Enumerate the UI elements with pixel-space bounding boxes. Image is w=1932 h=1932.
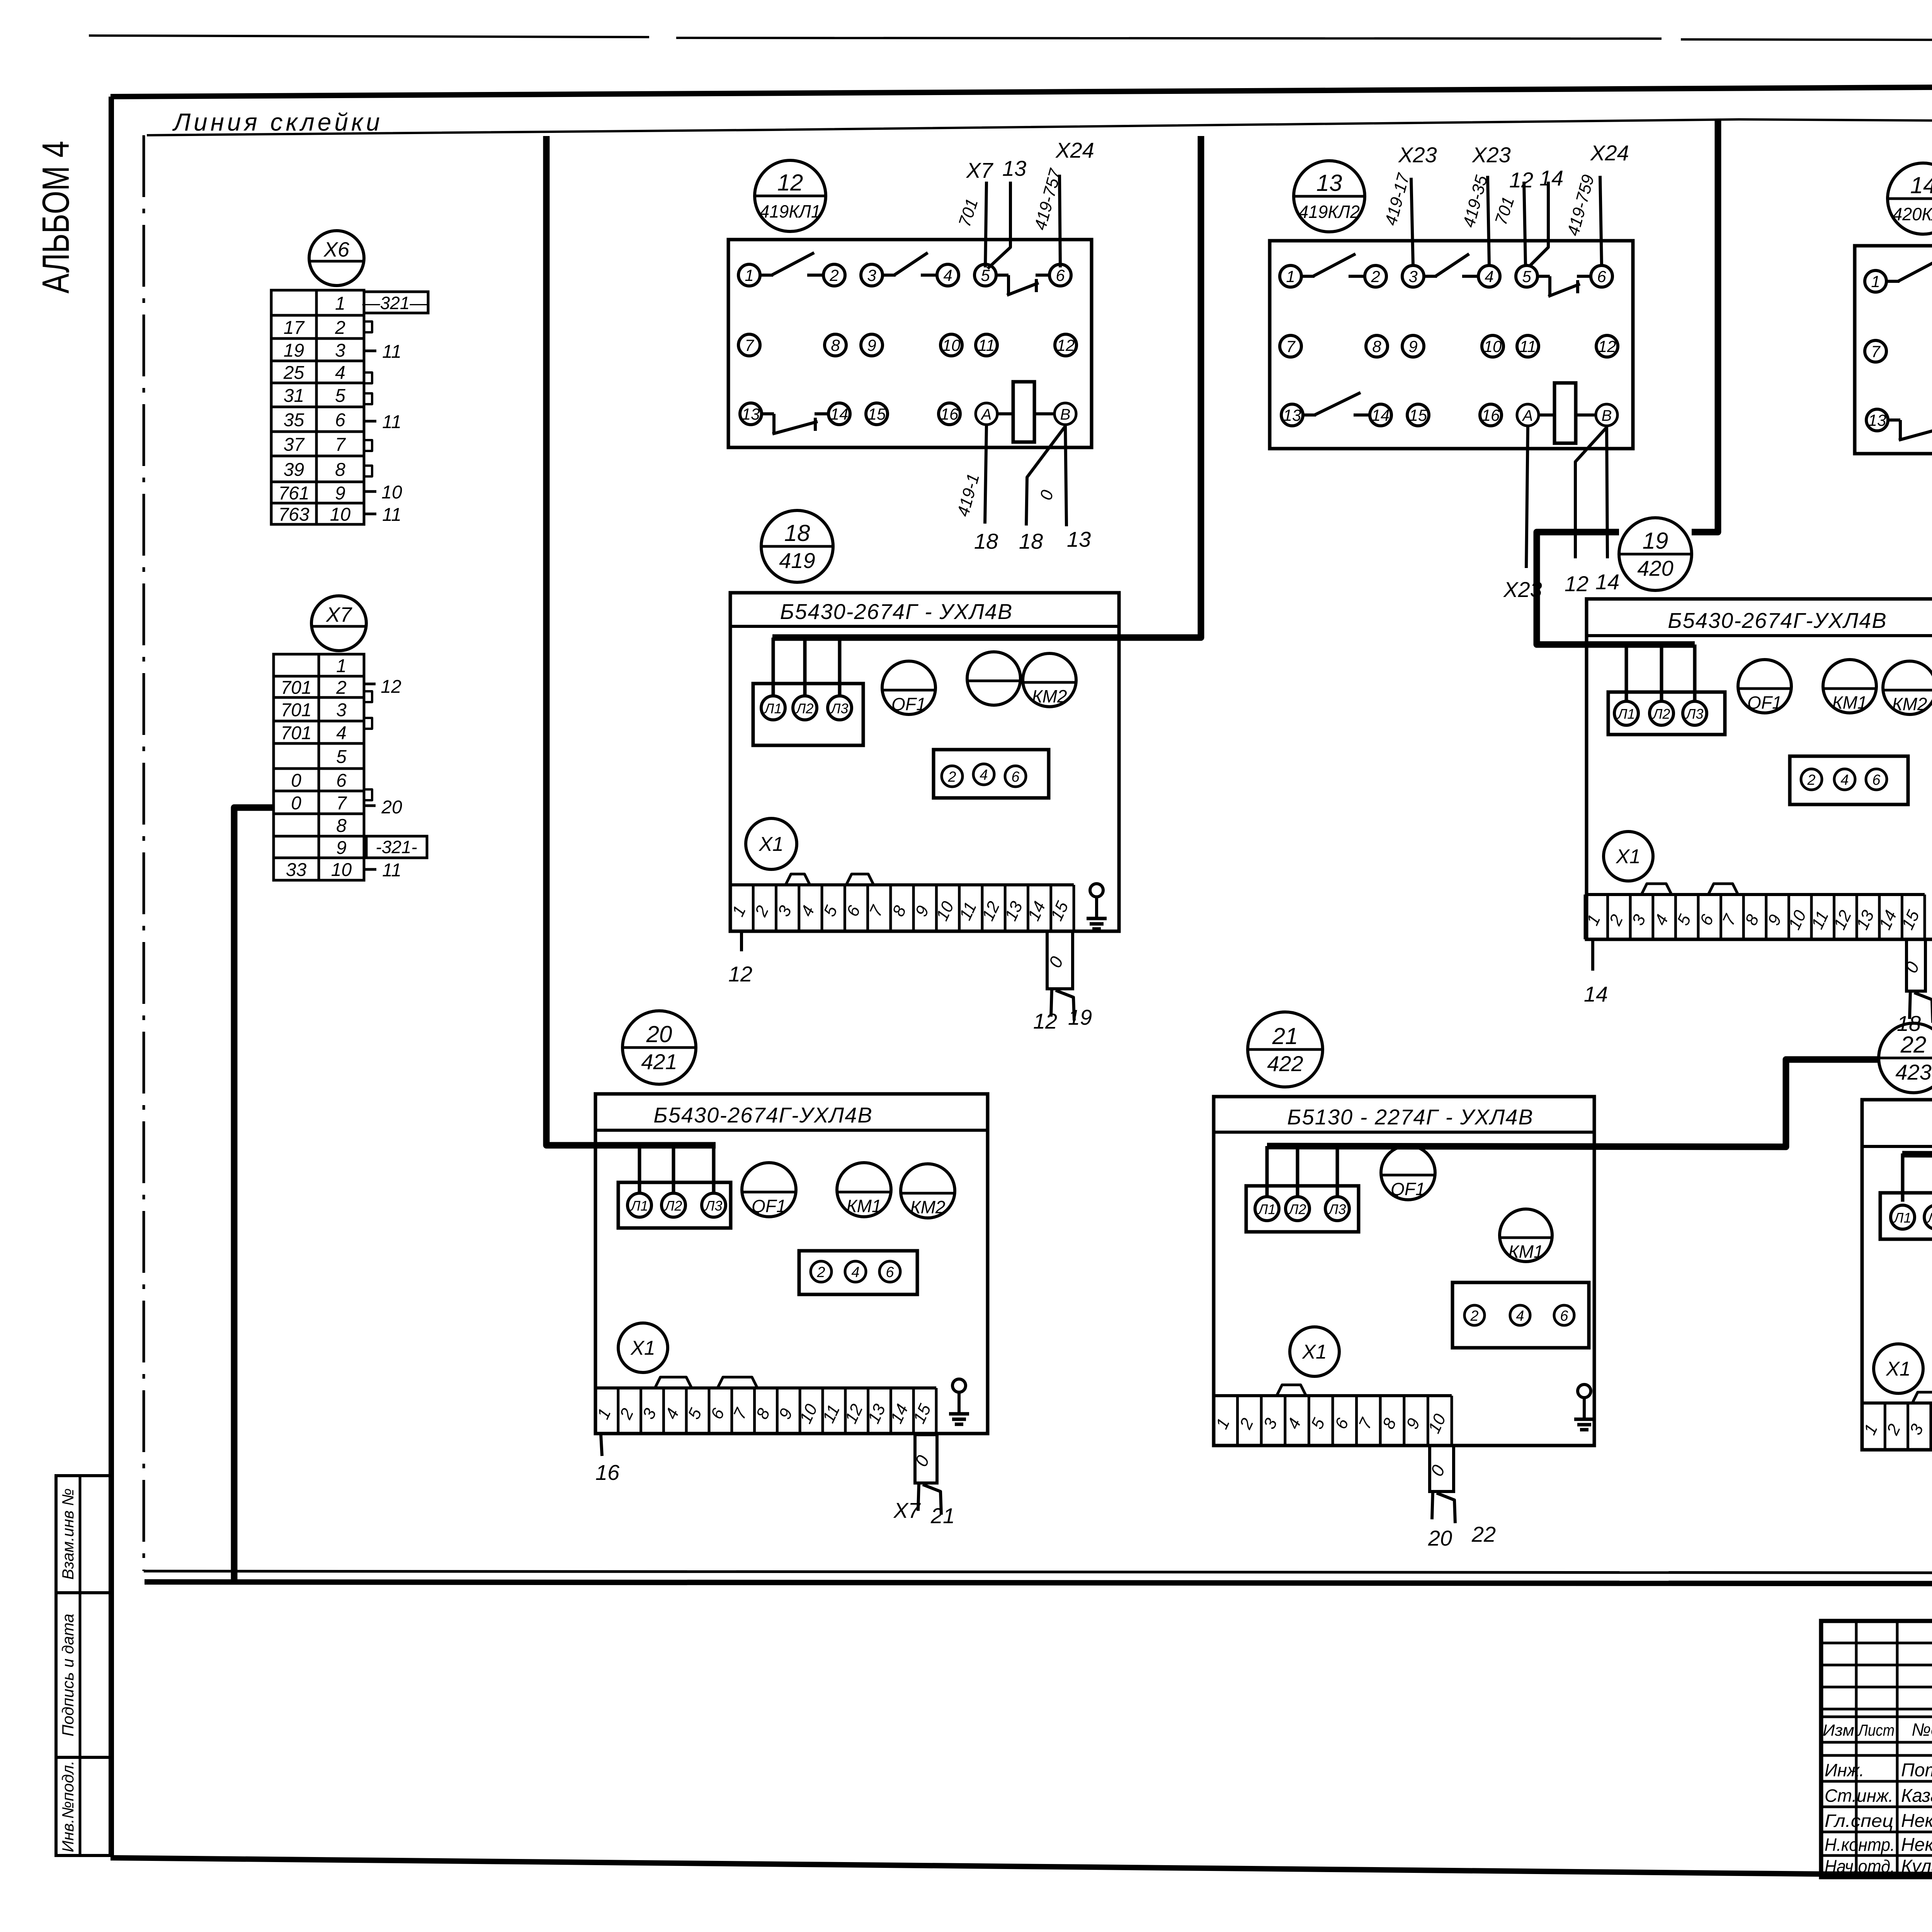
svg-text:X24: X24: [1055, 138, 1094, 162]
pin 6: [1049, 264, 1071, 286]
contact 3-4: [1424, 275, 1437, 278]
svg-text:2: 2: [947, 769, 956, 785]
feed wire glue line to 19/420 bubble: [1692, 120, 1718, 532]
pin 15: [1407, 404, 1429, 426]
svg-text:13: 13: [1067, 527, 1091, 551]
svg-text:2: 2: [1371, 267, 1380, 286]
svg-text:16: 16: [595, 1460, 620, 1485]
svg-text:4: 4: [336, 723, 347, 743]
pad 4: [1510, 1305, 1530, 1325]
jumper 3-4: [655, 1377, 692, 1388]
unit U18 title band: [730, 625, 1119, 628]
X7 pin marks: [364, 683, 376, 685]
svg-text:11: 11: [382, 505, 401, 525]
svg-text:Казакова: Казакова: [1901, 1786, 1932, 1806]
lamp L3: [828, 696, 852, 720]
connector X7 bubble: [311, 596, 366, 651]
svg-text:X1: X1: [759, 833, 784, 855]
svg-text:9: 9: [336, 838, 347, 858]
terminal 0 cell: [1430, 1446, 1454, 1492]
svg-text:7: 7: [335, 435, 346, 455]
svg-text:13: 13: [742, 405, 760, 423]
pin 3: [861, 264, 883, 286]
lamp drop wires U22: [1901, 1153, 1905, 1202]
wire pin B to 14: [1607, 426, 1607, 558]
connector X1 U22: [1874, 1344, 1923, 1393]
lamp L1: [628, 1193, 651, 1217]
wire pin5 to 13: [988, 182, 1010, 269]
svg-text:Нач.отд.: Нач.отд.: [1825, 1856, 1895, 1876]
svg-text:7: 7: [336, 793, 347, 814]
breaker QF1: [882, 661, 935, 714]
svg-text:3: 3: [336, 700, 347, 721]
jumper 3-4: [786, 874, 810, 885]
pin 5: [975, 264, 996, 286]
pad 6: [1554, 1305, 1574, 1325]
svg-text:Л1: Л1: [764, 701, 782, 716]
svg-text:3: 3: [335, 340, 345, 361]
svg-text:21: 21: [930, 1503, 955, 1528]
pad 2: [1464, 1305, 1485, 1325]
svg-text:12: 12: [1565, 571, 1588, 596]
pin 10: [1482, 335, 1503, 357]
terminal 0 cell: [915, 1435, 937, 1483]
svg-text:13: 13: [1283, 406, 1301, 424]
box 2-4-6 U18: [934, 750, 1049, 798]
jumper 3: [1912, 1392, 1932, 1403]
pad 6: [1005, 766, 1026, 787]
wire pin5 to 12: [1524, 182, 1526, 265]
svg-text:В: В: [1060, 406, 1071, 423]
svg-text:419: 419: [779, 548, 815, 573]
lamp L2: [1286, 1197, 1310, 1221]
lamp box U22: [1880, 1193, 1932, 1239]
svg-text:Ст.инж.: Ст.инж.: [1825, 1786, 1893, 1806]
svg-text:3: 3: [867, 266, 876, 284]
svg-text:6: 6: [1056, 266, 1065, 284]
svg-text:X23: X23: [1398, 143, 1437, 167]
contact 1-2: [760, 274, 773, 277]
svg-text:Л3: Л3: [1685, 706, 1704, 722]
connector X6 table: [271, 290, 364, 315]
svg-text:18: 18: [974, 529, 998, 553]
svg-text:11: 11: [382, 342, 401, 362]
unit U20 B5430-2674G outline: [595, 1094, 988, 1434]
pad 2: [1801, 769, 1822, 790]
svg-text:25: 25: [283, 363, 304, 383]
title block left grid: [1821, 1642, 1932, 1645]
left margin cells: [56, 1476, 111, 1593]
unit U19 B5430-2674G outline: [1587, 599, 1932, 939]
contactor KM1: [1500, 1209, 1552, 1262]
svg-text:22: 22: [1900, 1032, 1927, 1058]
svg-text:2: 2: [816, 1264, 825, 1281]
pin 15: [866, 403, 888, 425]
lamp box U20: [618, 1182, 731, 1228]
svg-text:423: 423: [1895, 1060, 1931, 1084]
svg-text:6: 6: [1872, 772, 1881, 788]
svg-text:А: А: [1522, 407, 1533, 424]
svg-text:QF1: QF1: [1747, 692, 1782, 713]
lamp L3: [1325, 1197, 1349, 1221]
svg-text:В: В: [1602, 407, 1612, 424]
svg-text:Л2: Л2: [664, 1198, 682, 1214]
svg-text:6: 6: [336, 770, 347, 791]
relay coil: [1013, 382, 1034, 442]
svg-text:4: 4: [335, 363, 345, 383]
terminal strip X1: [1214, 1394, 1452, 1397]
svg-text:Л2: Л2: [796, 701, 814, 716]
svg-text:9: 9: [1408, 337, 1417, 355]
jumper 6-7: [718, 1377, 757, 1388]
svg-text:Л3: Л3: [1328, 1201, 1346, 1217]
svg-text:1: 1: [335, 294, 345, 314]
svg-text:17: 17: [284, 318, 305, 338]
svg-text:701: 701: [281, 700, 311, 721]
ground symbol U21: [1578, 1384, 1591, 1398]
contact 13-14: [1303, 413, 1316, 417]
svg-text:Б5430-2674Г - УХЛ4В: Б5430-2674Г - УХЛ4В: [780, 599, 1013, 624]
wire fork to X7: [918, 1483, 919, 1511]
svg-text:7: 7: [745, 336, 754, 354]
inner frame bottom thick line: [145, 1582, 1932, 1584]
jumper 6-7: [846, 874, 874, 885]
unit designator bubble 22/423: [1879, 1023, 1932, 1093]
wire pin3 to X23: [1411, 178, 1413, 265]
wire fork to 12: [1051, 989, 1052, 1017]
wire pin A down 419-1: [985, 425, 986, 524]
spare circle: [967, 652, 1020, 705]
svg-text:Л2: Л2: [1927, 1210, 1932, 1226]
svg-text:2: 2: [1470, 1308, 1478, 1324]
jumper 6-7: [1708, 884, 1738, 895]
long feed wire from U21 lamps up to 22/423 bubble: [1267, 1060, 1880, 1147]
svg-text:X1: X1: [1616, 845, 1641, 868]
svg-text:11: 11: [382, 860, 401, 881]
svg-text:QF1: QF1: [1391, 1179, 1425, 1199]
svg-text:12: 12: [777, 170, 803, 196]
left glue line (dash-dot vertical): [143, 135, 145, 1571]
unit U20 title band: [595, 1129, 988, 1132]
svg-text:16: 16: [940, 405, 959, 423]
title block outline: [1821, 1621, 1932, 1877]
pin 11: [976, 334, 997, 356]
wire fork to 20: [1432, 1492, 1433, 1519]
contact 1-2: [1301, 275, 1315, 278]
pin 5: [1516, 265, 1537, 287]
svg-text:19: 19: [1068, 1005, 1092, 1029]
svg-text:X7: X7: [325, 603, 352, 626]
contact 13-14: [762, 412, 774, 415]
unit designator bubble 18/419: [761, 510, 833, 582]
frame top line: [111, 83, 1932, 97]
svg-text:4: 4: [851, 1264, 859, 1281]
pin 7: [1280, 335, 1301, 357]
contact 5-6: [996, 274, 1009, 277]
terminal 0 cell: [1047, 931, 1073, 989]
svg-text:Кулагин: Кулагин: [1901, 1856, 1932, 1877]
svg-text:14: 14: [1539, 166, 1563, 190]
svg-text:10: 10: [381, 482, 402, 503]
svg-text:X1: X1: [630, 1337, 655, 1359]
pin 1: [738, 264, 760, 286]
terminal 0 cell: [1906, 939, 1925, 991]
pin 2: [1365, 265, 1386, 287]
svg-text:Линия склейки: Линия склейки: [172, 108, 383, 136]
lamp L2: [793, 696, 817, 720]
pin 9: [861, 334, 883, 356]
wire terminal1 down: [601, 1435, 602, 1456]
lamp L1: [1891, 1205, 1915, 1229]
pin 4: [937, 264, 959, 286]
wire pin4 to X23: [1488, 176, 1489, 265]
box 2-4-6 U21: [1452, 1282, 1589, 1348]
svg-text:763: 763: [278, 505, 309, 525]
svg-text:X7: X7: [893, 1498, 921, 1522]
unit U21 title band: [1214, 1131, 1594, 1134]
svg-text:Потоцкий: Потоцкий: [1901, 1760, 1932, 1781]
svg-text:33: 33: [286, 860, 307, 880]
terminal strip X1: [730, 883, 1074, 886]
svg-text:16: 16: [1482, 406, 1500, 424]
svg-text:X7: X7: [966, 158, 993, 182]
svg-text:Н.контр.: Н.контр.: [1825, 1835, 1895, 1855]
frame left line: [109, 97, 114, 1857]
wire pin6 to X24: [1600, 176, 1602, 265]
svg-text:21: 21: [1272, 1023, 1298, 1049]
lamp L1: [761, 696, 785, 720]
lamp L2: [1924, 1205, 1932, 1229]
pin 3: [1402, 265, 1424, 287]
feed wire U22 lamps from glue line: [1902, 1154, 1932, 1156]
svg-text:11: 11: [382, 412, 401, 432]
svg-text:КМ1: КМ1: [1832, 692, 1867, 713]
svg-text:7: 7: [1871, 342, 1881, 361]
svg-text:X23: X23: [1471, 143, 1511, 167]
svg-text:420КЛ1: 420КЛ1: [1893, 204, 1932, 224]
svg-text:6: 6: [1560, 1308, 1568, 1324]
svg-text:2: 2: [829, 266, 838, 284]
pin 1: [1280, 265, 1301, 287]
svg-text:Инв.№подл.: Инв.№подл.: [59, 1760, 77, 1852]
contactor KM2: [1883, 661, 1932, 714]
svg-text:18: 18: [784, 520, 810, 546]
wire pin5 to X7: [985, 182, 986, 267]
svg-text:Л2: Л2: [1288, 1201, 1306, 1217]
lamp L2: [1650, 701, 1673, 725]
contact 5-6: [1537, 275, 1550, 278]
relay coil: [1554, 383, 1576, 443]
relay 419KL2 (K13) outline: [1270, 241, 1633, 449]
svg-text:QF1: QF1: [752, 1196, 786, 1216]
pin 13: [1866, 409, 1888, 431]
contactor KM1: [837, 1163, 891, 1217]
lamp L1: [1614, 701, 1638, 725]
svg-text:5: 5: [1522, 267, 1531, 286]
unit designator bubble 19/420: [1619, 518, 1692, 590]
svg-text:-321-: -321-: [376, 837, 417, 857]
pad 4: [845, 1261, 866, 1282]
svg-text:20: 20: [381, 797, 402, 818]
svg-text:10: 10: [942, 336, 961, 354]
svg-text:№докум.: №докум.: [1912, 1719, 1932, 1740]
svg-text:X24: X24: [1590, 141, 1629, 165]
unit U21 B5130-2274G outline: [1214, 1097, 1594, 1446]
wire fork to 22: [1914, 993, 1932, 1023]
svg-text:20: 20: [646, 1021, 672, 1047]
pin 8: [1366, 335, 1388, 357]
pin B: [1054, 403, 1076, 425]
relay designator bubble 13/419KL2: [1294, 161, 1365, 232]
top glue line: [147, 119, 1932, 135]
feed wire from glue line to U18 lamps: [772, 136, 1201, 638]
feed wire glue line to U20 lamps: [546, 136, 716, 1145]
svg-text:15: 15: [1409, 406, 1427, 424]
svg-text:18: 18: [1019, 529, 1043, 553]
box 2-4-6 U19: [1790, 756, 1908, 804]
pin 16: [939, 403, 960, 425]
svg-text:КМ2: КМ2: [1032, 686, 1067, 706]
svg-text:39: 39: [284, 460, 304, 480]
pin 8: [825, 334, 846, 356]
svg-text:1: 1: [745, 266, 753, 284]
svg-text:5: 5: [336, 747, 347, 767]
lamp L1: [1255, 1197, 1279, 1221]
pad 2: [811, 1261, 832, 1282]
svg-text:11: 11: [1519, 337, 1536, 355]
lamp box U19: [1608, 692, 1725, 735]
contact 1-2: [1886, 280, 1900, 283]
pin 13: [1281, 404, 1303, 426]
svg-text:4: 4: [1840, 772, 1849, 788]
svg-text:15: 15: [868, 405, 886, 423]
svg-text:4: 4: [1516, 1308, 1524, 1324]
pin 16: [1480, 404, 1502, 426]
connector X1 U18: [746, 818, 797, 869]
svg-text:А: А: [981, 406, 992, 423]
relay 419KL1 (K12) outline: [728, 240, 1092, 447]
svg-text:11: 11: [978, 336, 995, 354]
wire pin B fork 12: [1575, 427, 1607, 558]
svg-text:9: 9: [867, 336, 876, 354]
svg-text:4: 4: [980, 767, 988, 783]
svg-text:Инж.: Инж.: [1825, 1760, 1864, 1780]
svg-text:X1: X1: [1886, 1358, 1911, 1380]
svg-text:1: 1: [1871, 272, 1880, 291]
svg-text:12: 12: [1509, 168, 1533, 192]
svg-text:6: 6: [1011, 769, 1020, 785]
svg-text:Лист: Лист: [1857, 1721, 1895, 1739]
svg-text:14: 14: [1595, 570, 1619, 594]
terminal strip X1: [595, 1386, 936, 1389]
svg-text:10: 10: [330, 505, 351, 525]
relay 420KL1 (K14) outline: [1855, 246, 1932, 454]
lamp drop wires U20: [638, 1145, 641, 1194]
svg-text:20: 20: [1428, 1526, 1452, 1550]
svg-text:3: 3: [1408, 267, 1417, 286]
svg-text:12: 12: [1033, 1009, 1057, 1033]
lamp drop wires U21: [1265, 1146, 1269, 1196]
svg-text:14: 14: [1910, 172, 1932, 198]
svg-text:8: 8: [1372, 337, 1381, 355]
svg-text:Л3: Л3: [704, 1198, 723, 1214]
wire fork to 22: [1437, 1493, 1455, 1523]
pin 14: [1370, 404, 1391, 426]
svg-text:13: 13: [1002, 156, 1026, 180]
X7 row9 wire box -321-: [366, 836, 427, 858]
pad 6: [879, 1261, 900, 1282]
svg-text:419КЛ2: 419КЛ2: [1299, 202, 1360, 222]
svg-text:—321—: —321—: [362, 293, 428, 313]
wire fork to 18: [1910, 991, 1910, 1019]
pad 2: [942, 766, 963, 787]
feed wire 19/420 to U19 lamps: [1537, 532, 1695, 645]
svg-text:10: 10: [331, 860, 352, 880]
svg-text:4: 4: [1485, 267, 1493, 286]
svg-text:Л1: Л1: [1617, 706, 1635, 722]
svg-text:13: 13: [1316, 170, 1342, 196]
svg-text:1: 1: [336, 656, 347, 677]
unit designator bubble 20/421: [622, 1011, 696, 1084]
lamp L3: [702, 1193, 726, 1217]
pin 7: [1865, 340, 1886, 362]
connector X1 U20: [618, 1323, 668, 1372]
unit U22 title band: [1862, 1145, 1932, 1148]
pin 12: [1596, 335, 1618, 357]
svg-text:6: 6: [886, 1264, 894, 1281]
wire fork to 19: [1056, 990, 1074, 1020]
ground symbol U18: [1090, 884, 1103, 897]
svg-text:14: 14: [1584, 982, 1608, 1006]
wire terminal1 down: [1591, 939, 1594, 971]
svg-text:Некрасов: Некрасов: [1901, 1835, 1932, 1855]
svg-text:Некрасов: Некрасов: [1901, 1811, 1932, 1831]
pad 4: [973, 764, 994, 785]
pin 2: [823, 264, 845, 286]
svg-text:22: 22: [1471, 1522, 1496, 1546]
pin 11: [1517, 335, 1539, 357]
terminal strip X1: [1585, 893, 1925, 896]
breaker QF1: [1738, 660, 1791, 713]
svg-text:4: 4: [943, 266, 952, 284]
svg-text:12: 12: [1598, 337, 1616, 355]
svg-text:0: 0: [291, 793, 301, 814]
svg-text:12: 12: [1057, 336, 1075, 354]
svg-text:422: 422: [1267, 1051, 1303, 1076]
svg-text:19: 19: [1643, 528, 1668, 554]
svg-text:13: 13: [1868, 411, 1886, 429]
svg-text:761: 761: [278, 483, 309, 504]
svg-text:1: 1: [1286, 267, 1295, 286]
lamp drop wires U18: [772, 638, 775, 696]
svg-text:2: 2: [1807, 772, 1815, 788]
svg-text:12: 12: [381, 677, 401, 697]
svg-text:2: 2: [335, 318, 345, 338]
pin 12: [1055, 334, 1077, 356]
svg-text:419КЛ1: 419КЛ1: [760, 201, 821, 221]
svg-text:7: 7: [1286, 337, 1296, 355]
lamp box U21: [1246, 1186, 1359, 1232]
pin 9: [1402, 335, 1424, 357]
svg-text:КМ2: КМ2: [1892, 694, 1927, 714]
svg-text:19: 19: [284, 340, 304, 361]
svg-text:5: 5: [335, 386, 345, 406]
wire pin A to X23: [1526, 426, 1528, 568]
svg-text:421: 421: [641, 1049, 677, 1074]
frame bottom line: [111, 1858, 1932, 1877]
wire pin B to 13: [1065, 425, 1066, 526]
svg-text:420: 420: [1637, 556, 1673, 580]
